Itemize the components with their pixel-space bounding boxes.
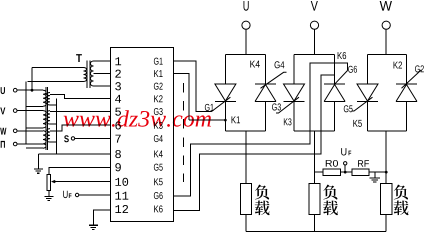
control terminal S <box>64 135 69 142</box>
load label 2 <box>323 185 337 200</box>
phase group 2 loop wires <box>294 54 335 56</box>
pin label G6 <box>154 192 163 199</box>
pin label K1 <box>154 70 162 77</box>
pin 2 number <box>115 70 121 78</box>
load 1 <box>245 131 247 184</box>
pin label K3 <box>154 122 163 129</box>
wire G6: IC to gate of V6 <box>174 63 348 196</box>
gate G4 lead <box>261 72 287 88</box>
common bus <box>25 90 27 144</box>
potentiometer RP <box>49 167 111 174</box>
T secondary wires to pins 1-3 <box>94 60 111 62</box>
gate G2 lead <box>402 70 422 89</box>
pin label K4 <box>154 151 163 158</box>
phase terminal W <box>380 1 392 11</box>
bottom rail <box>246 231 386 233</box>
ground (pin 12) <box>93 210 110 225</box>
pin 5 number <box>115 108 121 116</box>
three-phase transformer primary windings <box>17 89 43 91</box>
thyristor V3 (anode up, conducts down) <box>284 55 305 132</box>
pin 7 number <box>115 135 120 143</box>
secondary common bus <box>50 104 56 106</box>
input terminal Π <box>1 141 5 148</box>
pin 3 number <box>115 82 121 90</box>
phase group 1 loop wires <box>225 54 265 56</box>
load 3 <box>385 131 387 184</box>
phase group 3 loop wires <box>368 54 407 56</box>
pin label G2 <box>154 83 163 90</box>
trigger module U1 (12-pin box) <box>111 48 174 222</box>
thyristor V2 (anode down, conducts up) <box>396 55 417 132</box>
sync transformer T <box>76 54 82 62</box>
wire G1: IC to gate of V1 <box>174 61 212 112</box>
pin label G1 <box>154 58 163 65</box>
thyristor V5 (anode up, conducts down) <box>357 55 378 132</box>
load 2 <box>314 131 316 184</box>
pin 1 number <box>115 57 121 65</box>
load label 1 <box>255 185 269 200</box>
dashed omitted-wires bus <box>183 83 185 182</box>
wire K6: IC to cathode of V6 <box>174 75 335 210</box>
pin label G4 <box>154 135 163 142</box>
gate G5 lead <box>352 97 373 111</box>
pin label K5 <box>154 178 163 185</box>
cathode K1 tap <box>189 119 225 121</box>
input terminal V <box>0 108 5 115</box>
winding return leads <box>26 105 43 107</box>
pin 4 number <box>115 95 121 103</box>
gate G6 lead <box>335 71 348 85</box>
ground (feedback divider) <box>374 172 376 178</box>
resistor R0 <box>315 171 324 173</box>
wiper arrow (pin 10) <box>54 181 111 183</box>
resistor RF <box>352 169 369 176</box>
pin label G3 <box>154 108 163 115</box>
gate G1 lead <box>211 97 230 111</box>
load label 3 <box>394 185 408 200</box>
input terminal W <box>0 128 6 135</box>
input terminal U <box>1 87 5 94</box>
phase terminal U <box>244 1 249 11</box>
wire K1: IC to cathode of V1 <box>174 73 190 120</box>
phase terminal V <box>311 1 318 11</box>
control voltage terminal UF <box>63 191 67 198</box>
T primary wires <box>32 67 84 69</box>
pin 8 number <box>115 150 121 158</box>
gate G3 lead <box>276 97 299 113</box>
pin 12 number <box>115 205 128 213</box>
pin 11 number <box>115 192 128 200</box>
pin label K2 <box>154 95 162 102</box>
terminal UF (feedback) <box>344 171 347 174</box>
thyristor V4 (anode down, conducts up) <box>255 55 276 132</box>
secondary windings to pins 4-6 <box>47 93 50 106</box>
watermark <box>64 110 211 127</box>
ground (pin 8) <box>38 153 110 155</box>
thyristor V6 (anode down, conducts up) <box>324 55 345 132</box>
pin 10 number <box>115 178 128 186</box>
transformer core <box>45 87 47 150</box>
pin 9 number <box>115 163 121 171</box>
pin label G5 <box>154 164 163 171</box>
pin label K6 <box>154 205 163 212</box>
pin 6 number <box>115 121 121 129</box>
thyristor V1 (anode up, conducts down) <box>215 55 236 132</box>
